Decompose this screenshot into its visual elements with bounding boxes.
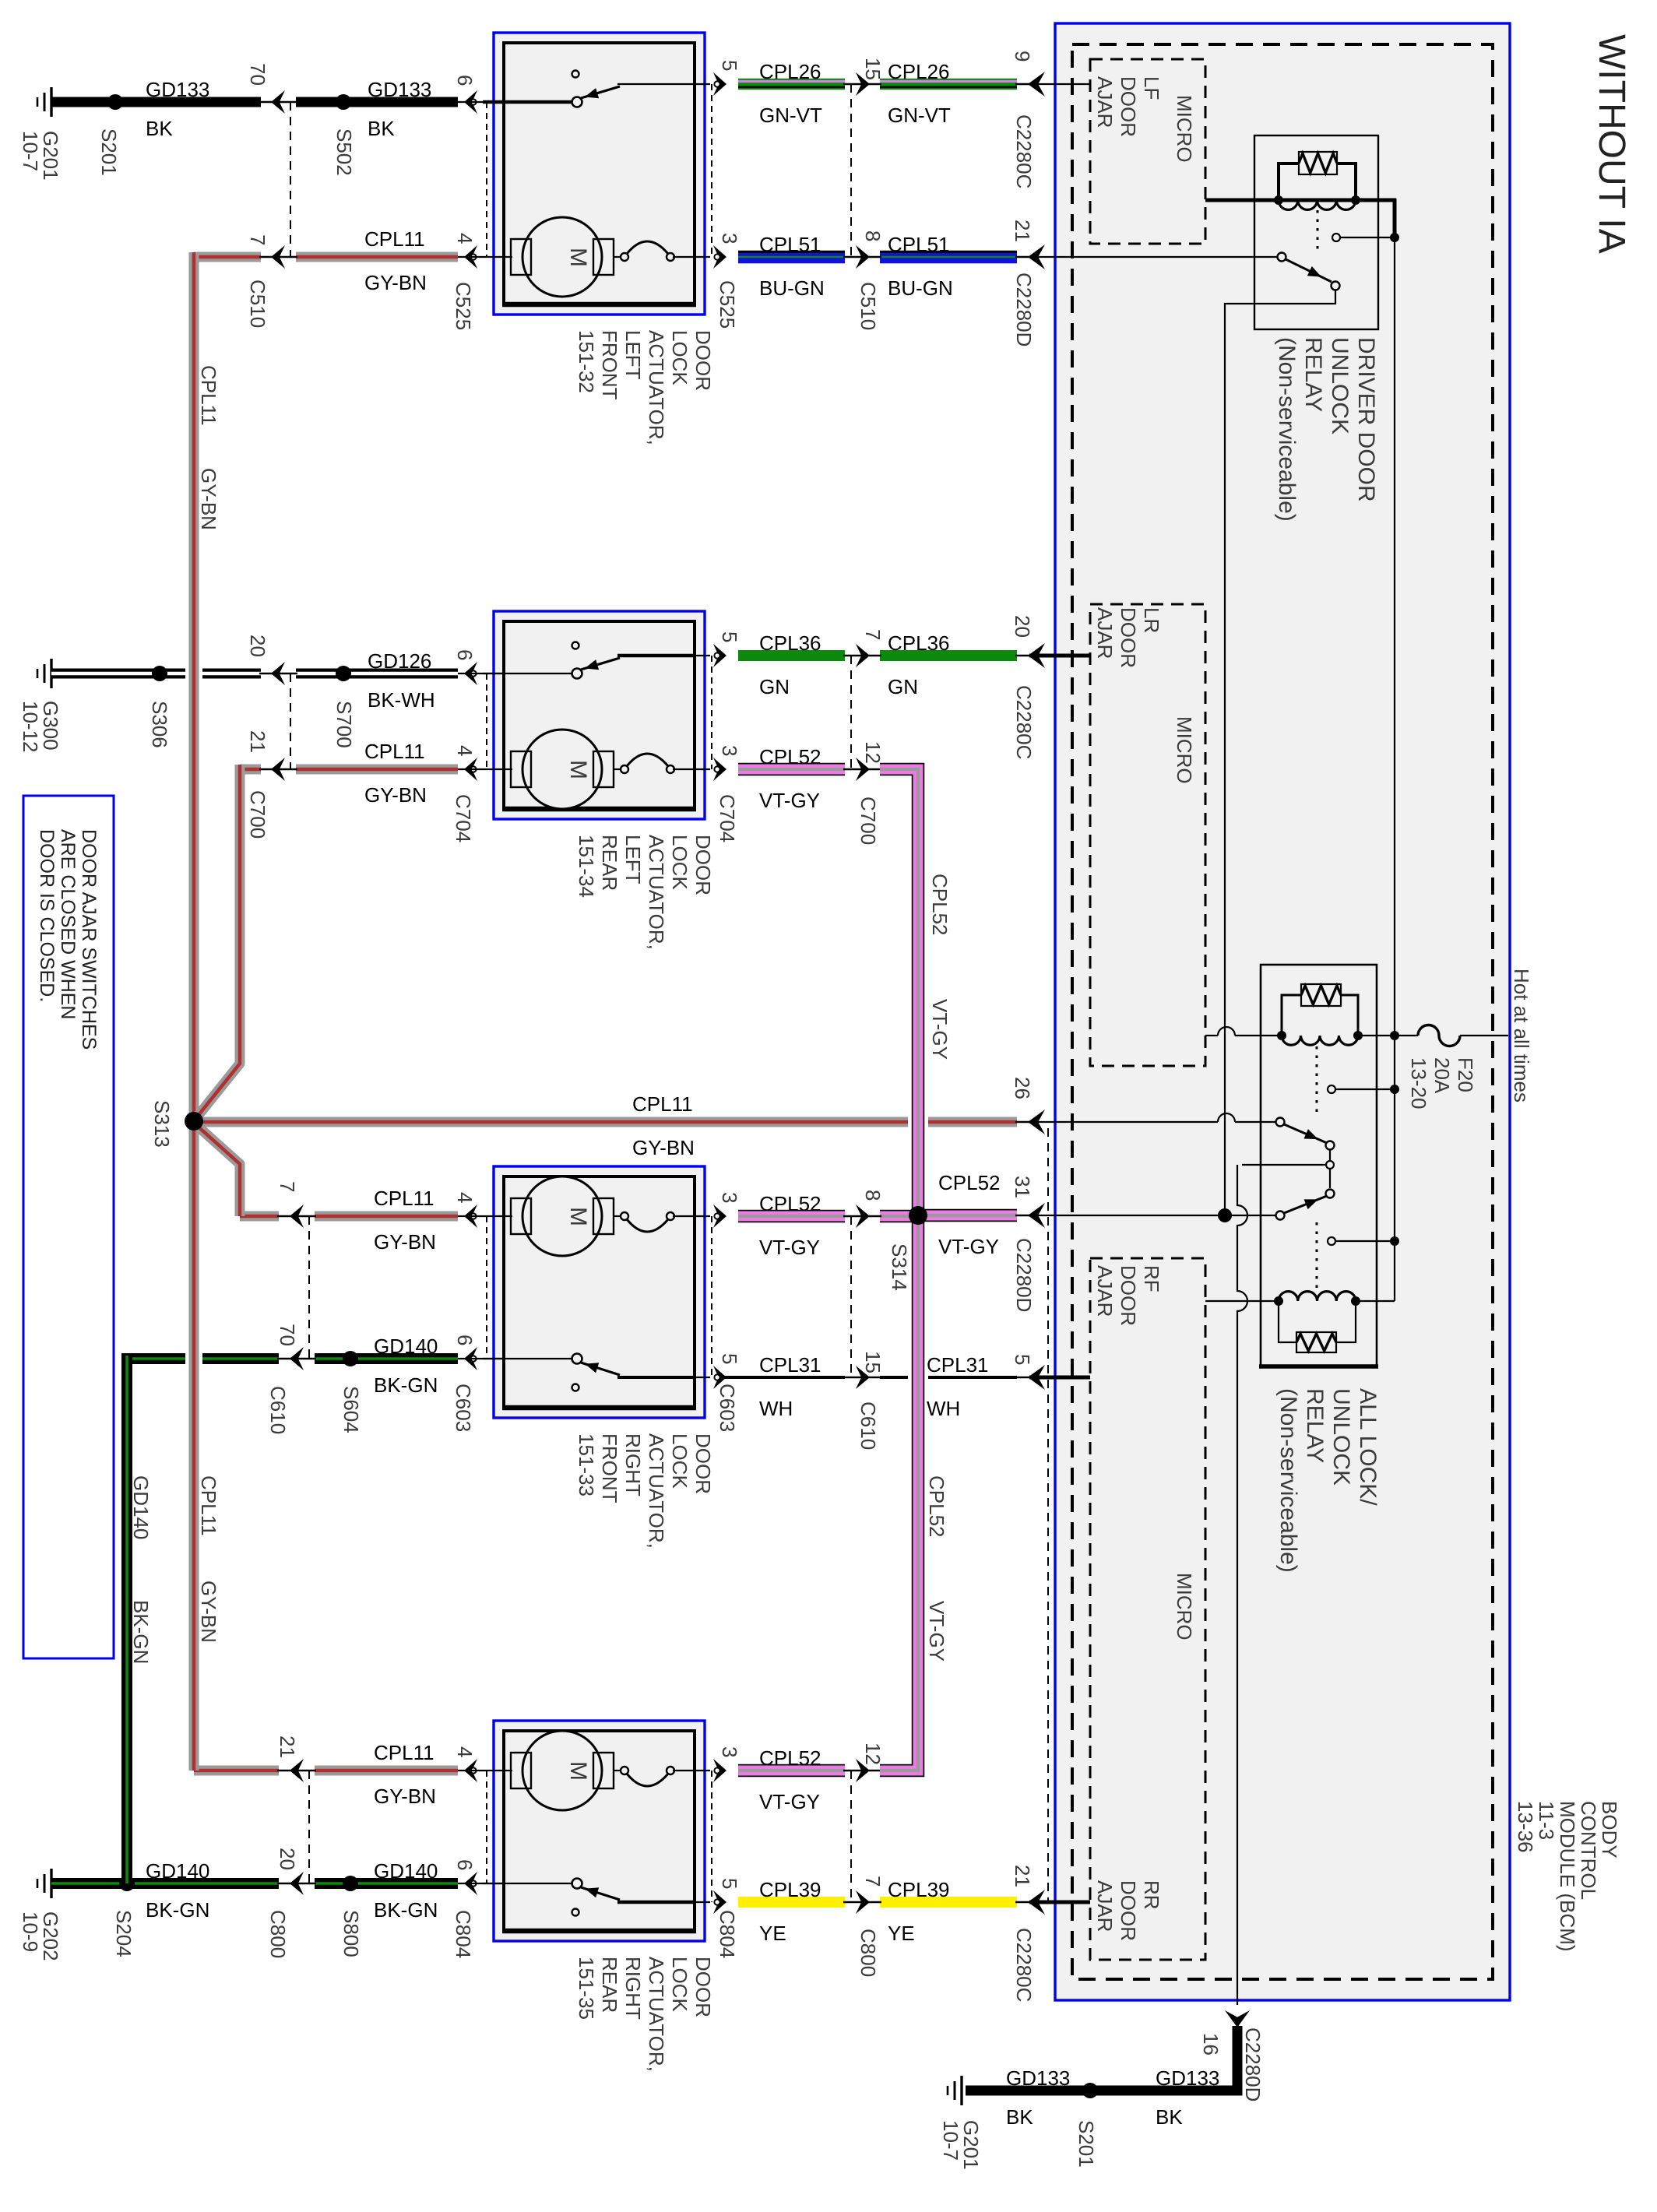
svg-text:21: 21	[1011, 1865, 1034, 1887]
svg-text:6: 6	[453, 75, 477, 86]
connector C704 dashed left	[486, 673, 487, 769]
ground G201 (bottom)	[960, 2076, 962, 2105]
svg-text:VT-GY: VT-GY	[928, 999, 952, 1060]
svg-text:S314: S314	[888, 1243, 911, 1291]
svg-text:C603: C603	[452, 1384, 475, 1432]
relay U2 actuation dotted links	[1316, 1046, 1318, 1115]
connector C510 pin70 arrow	[271, 90, 285, 114]
wire GD133 BK from pin16	[966, 2026, 1237, 2091]
svg-text:MICRO: MICRO	[1173, 1573, 1196, 1641]
svg-text:GD140: GD140	[146, 1859, 209, 1883]
svg-text:CPL52: CPL52	[928, 874, 952, 936]
BCM pin21 arrow C2280C	[1028, 1890, 1045, 1915]
C610 pin8 arrow	[856, 1204, 870, 1228]
ground G300	[50, 659, 52, 688]
connector C603 dashed right	[711, 1216, 712, 1377]
svg-text:C603: C603	[716, 1384, 739, 1432]
svg-text:GD126: GD126	[368, 649, 431, 673]
svg-text:C804: C804	[452, 1910, 475, 1958]
svg-text:GN: GN	[888, 675, 918, 698]
svg-text:CPL11: CPL11	[632, 1092, 693, 1116]
svg-text:S800: S800	[339, 1910, 363, 1957]
svg-text:3: 3	[718, 1746, 741, 1757]
C700 pin12 arrow	[856, 758, 870, 781]
wire to LR switch pin6	[464, 662, 477, 685]
splice S204	[119, 1876, 135, 1891]
wire GD133 BK left segment	[51, 97, 261, 107]
svg-text:GY-BN: GY-BN	[374, 1230, 436, 1254]
svg-text:CPL11: CPL11	[374, 1741, 434, 1764]
svg-text:S604: S604	[339, 1386, 363, 1433]
wire CPL39 YE segment 1	[738, 1897, 845, 1908]
wire CPL36 GN segment 2	[880, 650, 1017, 661]
wire GD126 BK-WH right segment	[296, 669, 458, 679]
svg-text:BK-GN: BK-GN	[146, 1898, 209, 1922]
wire pin31 row to relay U2 pole2 common	[1029, 1215, 1275, 1216]
LR pin4 arrow	[464, 758, 477, 781]
svg-text:BK: BK	[1156, 2105, 1183, 2129]
svg-text:M: M	[565, 760, 591, 779]
svg-text:C700: C700	[246, 790, 269, 839]
svg-text:C704: C704	[716, 794, 739, 842]
relay U2 center rest contact chain to ground	[1329, 1150, 1331, 1188]
svg-text:M: M	[565, 1761, 591, 1781]
svg-text:C700: C700	[857, 797, 880, 845]
relay U1 actuation dotted link	[1317, 210, 1319, 254]
white halo for VT-GY vertical	[908, 1112, 928, 1132]
svg-text:GD133: GD133	[1156, 2066, 1219, 2090]
wire CPL11 GY-BN vertical S313 bus	[189, 252, 199, 1771]
svg-text:CPL51: CPL51	[888, 233, 950, 256]
svg-text:CPL11: CPL11	[374, 1187, 434, 1210]
wire pin26 to relay U2 pole1 common	[1029, 1121, 1218, 1123]
fuse row / relay U2 upper coil feed	[1205, 1035, 1218, 1036]
RF pin4 arrow	[464, 1204, 477, 1228]
RR door ajar switch	[483, 1883, 573, 1884]
svg-text:BU-GN: BU-GN	[888, 276, 953, 300]
ground G202	[50, 1869, 52, 1898]
RR motor M	[505, 1770, 512, 1771]
wire CPL52 to S314	[880, 1210, 918, 1223]
LR door ajar switch	[483, 673, 573, 674]
relay U1 switch	[1278, 253, 1286, 262]
svg-text:CPL26: CPL26	[759, 60, 821, 83]
relay U1 output wire to S-bus	[1225, 290, 1335, 1215]
svg-text:5: 5	[718, 60, 741, 71]
svg-text:70: 70	[246, 63, 269, 86]
RF pin5 arrow	[713, 1366, 726, 1389]
LR pin5 arrow	[713, 644, 726, 667]
svg-text:MICRO: MICRO	[1173, 716, 1196, 784]
svg-text:WH: WH	[927, 1397, 960, 1420]
pin16 exit arrow C2280D	[1225, 2010, 1250, 2027]
wire GD133 BK right segment	[296, 97, 458, 107]
relay U2 pole1 NO contact to battery	[1328, 1085, 1335, 1093]
svg-text:WH: WH	[759, 1397, 793, 1420]
svg-text:CPL52: CPL52	[925, 1475, 948, 1538]
svg-text:4: 4	[453, 745, 477, 756]
svg-text:3: 3	[718, 745, 741, 756]
wire CPL39 YE segment 2	[880, 1897, 1017, 1908]
splice S604	[343, 1351, 358, 1366]
svg-text:C704: C704	[452, 794, 475, 842]
svg-text:S313: S313	[150, 1100, 174, 1148]
RR pin3 arrow	[713, 1759, 726, 1782]
splice S502	[336, 94, 351, 110]
svg-text:S201: S201	[97, 128, 121, 176]
svg-text:15: 15	[861, 1351, 885, 1373]
svg-text:GD140: GD140	[129, 1475, 153, 1539]
svg-text:12: 12	[861, 1743, 885, 1765]
svg-text:S201: S201	[1075, 2120, 1098, 2168]
svg-text:8: 8	[861, 1190, 885, 1201]
svg-text:6: 6	[453, 649, 477, 660]
svg-text:C2280D: C2280D	[1241, 2027, 1265, 2101]
svg-text:C610: C610	[857, 1401, 880, 1450]
svg-text:20: 20	[276, 1848, 299, 1870]
RF door ajar switch	[483, 1358, 573, 1359]
C800 pin12 arrow	[856, 1759, 870, 1782]
svg-text:GY-BN: GY-BN	[364, 271, 427, 294]
wire pin21 to relay U1 common	[1029, 256, 1278, 258]
connector C525 dashed right	[711, 84, 712, 257]
svg-text:GN-VT: GN-VT	[888, 104, 951, 127]
svg-text:21: 21	[246, 730, 269, 753]
connector C704 dashed right	[711, 656, 712, 769]
relay U2 upper coil	[1282, 1036, 1358, 1045]
wire to LF switch pin6	[464, 90, 477, 114]
svg-text:C525: C525	[716, 280, 739, 329]
C610 pin15 arrow	[856, 1366, 870, 1389]
wire GD126 BK-WH left segment	[51, 669, 261, 679]
white halo for GY-BN vertical	[185, 663, 202, 684]
LF pin4 arrow	[464, 245, 477, 269]
door lock actuator LR box 151-34	[494, 611, 705, 819]
BCM internal dashed boundary	[1072, 44, 1493, 1979]
svg-text:CPL31: CPL31	[759, 1353, 821, 1377]
svg-text:C610: C610	[266, 1386, 290, 1434]
svg-text:CPL36: CPL36	[888, 631, 950, 655]
connector C700 dashed (right)	[850, 656, 852, 769]
svg-text:GD140: GD140	[374, 1335, 438, 1358]
relay U1 box DRIVER DOOR UNLOCK RELAY	[1254, 135, 1378, 329]
svg-text:CPL39: CPL39	[759, 1878, 821, 1901]
svg-text:CPL31: CPL31	[927, 1353, 989, 1377]
svg-text:GY-BN: GY-BN	[197, 468, 220, 530]
wire CPL11 GY-BN to RF motor	[240, 1212, 279, 1222]
svg-text:S306: S306	[148, 701, 171, 748]
LF door ajar switch	[483, 100, 573, 104]
RR pin4 arrow	[464, 1759, 477, 1782]
wire CPL11 branch to RF motor (diagonal)	[195, 1124, 240, 1216]
svg-text:BK: BK	[146, 117, 173, 140]
wire CPL26 GN-VT segment 2	[880, 79, 1017, 90]
svg-text:CPL39: CPL39	[888, 1878, 950, 1901]
svg-text:BK-WH: BK-WH	[368, 688, 435, 712]
svg-text:9: 9	[1011, 51, 1034, 62]
svg-text:5: 5	[1011, 1354, 1034, 1365]
wire pin5 RF to micro	[1029, 1376, 1090, 1380]
door lock actuator LF box 151-32	[494, 33, 705, 315]
splice S201	[107, 94, 123, 110]
BCM pin20 arrow C2280C	[1028, 643, 1045, 668]
svg-text:S204: S204	[112, 1910, 135, 1957]
wire pin20 LR to micro	[1029, 654, 1090, 658]
svg-text:6: 6	[453, 1335, 477, 1345]
wire CPL51 BU-GN segment 2	[880, 251, 1017, 264]
svg-text:C2280D: C2280D	[1012, 1238, 1036, 1312]
connector C510 dashed line (left)	[290, 102, 291, 257]
MICRO box RF/RR	[1090, 1258, 1205, 1960]
svg-text:3: 3	[718, 1192, 741, 1203]
RF pin3 arrow	[713, 1204, 726, 1228]
svg-text:C800: C800	[857, 1929, 880, 1977]
svg-text:21: 21	[276, 1735, 299, 1758]
svg-text:GY-BN: GY-BN	[632, 1136, 695, 1159]
connector C804 dashed left	[486, 1771, 487, 1883]
svg-text:GN: GN	[759, 675, 790, 698]
svg-text:BK-GN: BK-GN	[129, 1600, 153, 1664]
svg-text:YE: YE	[759, 1922, 786, 1945]
svg-text:CPL52: CPL52	[938, 1171, 1001, 1194]
svg-text:4: 4	[453, 1192, 477, 1203]
svg-text:12: 12	[861, 741, 885, 764]
svg-text:CPL52: CPL52	[759, 1192, 821, 1215]
connector C800 dashed (left)	[308, 1771, 310, 1883]
wire CPL52 VT-GY vertical bus with corners	[880, 769, 918, 1771]
svg-text:6: 6	[453, 1859, 477, 1870]
splice S314	[909, 1206, 927, 1225]
wire CPL26 GN-VT segment 1	[738, 79, 845, 90]
svg-text:4: 4	[453, 1746, 477, 1757]
svg-text:CPL51: CPL51	[759, 233, 821, 256]
svg-text:70: 70	[276, 1324, 299, 1346]
wire CPL11 GY-BN to RR motor	[194, 1766, 279, 1776]
connector C610 dashed (right)	[850, 1216, 852, 1377]
connector C525 dashed left	[486, 102, 487, 257]
svg-text:21: 21	[1011, 220, 1034, 242]
svg-text:BK-GN: BK-GN	[374, 1898, 438, 1922]
svg-text:8: 8	[861, 230, 885, 241]
svg-text:BK: BK	[1006, 2105, 1033, 2129]
svg-text:4: 4	[453, 233, 477, 244]
wire pin9 to LF micro	[1029, 83, 1090, 85]
svg-text:CPL36: CPL36	[759, 631, 821, 655]
LR pin3 arrow	[713, 758, 726, 781]
wire pin21 RR to micro	[1029, 1901, 1090, 1904]
wire CPL31 WH segment 1	[723, 1376, 845, 1379]
door lock actuator RF box 151-33	[494, 1166, 705, 1418]
BCM module box BODY CONTROL MODULE (BCM)	[1055, 23, 1510, 2000]
C700 pin7 arrow	[856, 644, 870, 667]
svg-text:C2280C: C2280C	[1012, 1928, 1036, 2002]
svg-text:5: 5	[718, 631, 741, 642]
svg-text:CPL26: CPL26	[888, 60, 950, 83]
svg-text:GD133: GD133	[146, 78, 209, 101]
ground bus vertical to pin16	[1237, 1165, 1247, 2005]
LF motor M	[505, 256, 512, 258]
svg-text:20: 20	[1011, 615, 1034, 638]
relay U2 pole2 switch	[1276, 1212, 1285, 1220]
svg-text:VT-GY: VT-GY	[759, 789, 820, 812]
svg-text:BK: BK	[368, 117, 395, 140]
svg-text:GD133: GD133	[368, 78, 431, 101]
C800 pin7 arrow	[856, 1890, 870, 1914]
splice S700	[336, 666, 351, 681]
svg-text:WITHOUT IA: WITHOUT IA	[1591, 34, 1632, 254]
LR motor M	[505, 768, 512, 770]
svg-text:VT-GY: VT-GY	[759, 1790, 820, 1813]
relay U2 lower coil feed from RF/RR micro	[1205, 1300, 1279, 1302]
svg-text:GN-VT: GN-VT	[759, 104, 822, 127]
splice S313	[185, 1112, 203, 1131]
relay U1 coil feed wire	[1205, 199, 1396, 202]
svg-text:GD133: GD133	[1006, 2066, 1070, 2090]
svg-text:16: 16	[1199, 2033, 1223, 2056]
wire CPL36 GN segment 1	[738, 650, 845, 661]
wire GD140 BK-GN bottom row	[51, 1878, 279, 1889]
svg-text:5: 5	[718, 1878, 741, 1889]
wire CPL11 branch to LR motor (diagonal)	[195, 765, 240, 1119]
svg-text:Hot at all times: Hot at all times	[1510, 969, 1533, 1102]
relay U2 box ALL LOCK/UNLOCK RELAY	[1261, 965, 1377, 1366]
svg-text:GY-BN: GY-BN	[374, 1785, 436, 1808]
wire CPL52 VT-GY RR segment	[738, 1764, 845, 1778]
C510 pin15 arrow	[856, 72, 870, 96]
connector C510 dashed (right)	[850, 84, 852, 257]
relay U1 coil	[1279, 200, 1356, 209]
door lock actuator RR box 151-35	[494, 1721, 705, 1941]
svg-text:C510: C510	[246, 280, 269, 328]
LF pin3 arrow	[713, 245, 726, 269]
splice S800	[343, 1876, 358, 1891]
svg-text:3: 3	[718, 233, 741, 244]
wire CPL11 GY-BN row to LF motor	[194, 252, 261, 262]
fuse F20	[1395, 1035, 1418, 1036]
BCM pin9 arrow C2280C	[1028, 72, 1045, 97]
svg-text:CPL11: CPL11	[364, 227, 425, 251]
BCM pin5 arrow	[1028, 1365, 1045, 1390]
battery bus vertical	[1393, 199, 1397, 239]
svg-text:MICRO: MICRO	[1173, 95, 1196, 163]
svg-text:C800: C800	[266, 1910, 290, 1958]
RF motor M	[505, 1215, 512, 1217]
wire CPL11 GY-BN long row from S313 to BCM pin26	[194, 1117, 1017, 1127]
svg-text:C510: C510	[857, 282, 880, 330]
relay U1 NO contact to battery bus	[1332, 234, 1340, 241]
C800 pin20 arrow	[290, 1872, 304, 1895]
wire GD140 BK-GN from corner to RF switch	[127, 1353, 279, 1364]
svg-text:GY-BN: GY-BN	[364, 783, 427, 807]
connector C800 dashed (right)	[850, 1771, 852, 1902]
svg-text:S502: S502	[332, 128, 356, 176]
svg-text:7: 7	[246, 234, 269, 245]
svg-text:BK-GN: BK-GN	[374, 1373, 438, 1397]
svg-text:C804: C804	[716, 1910, 739, 1958]
MICRO box LF	[1090, 59, 1205, 244]
note box DOOR AJAR SWITCHES	[23, 796, 114, 1658]
BCM pin21 arrow C2280D	[1028, 244, 1045, 269]
RR pin6 arrow	[464, 1872, 477, 1895]
MICRO box LR	[1090, 604, 1205, 1066]
wire CPL51 BU-GN segment 1	[738, 251, 845, 264]
svg-text:CPL52: CPL52	[759, 1746, 821, 1770]
splice S201 (bottom)	[1082, 2083, 1098, 2098]
svg-text:VT-GY: VT-GY	[938, 1235, 999, 1258]
splice S306	[152, 666, 167, 681]
svg-text:CPL11: CPL11	[197, 365, 220, 426]
connector C700 dashed (left)	[290, 673, 291, 769]
svg-text:C2280C: C2280C	[1012, 114, 1036, 188]
connector C2280D group dashed line	[1047, 1128, 1049, 1902]
svg-text:20: 20	[246, 635, 269, 657]
svg-text:5: 5	[718, 1353, 741, 1364]
C700 pin20 arrow	[271, 662, 285, 685]
svg-text:CPL11: CPL11	[197, 1475, 220, 1536]
wire CPL11 GY-BN to LR motor	[240, 765, 261, 775]
svg-text:C525: C525	[452, 282, 475, 330]
LF pin5 arrow	[713, 72, 726, 96]
relay U2 pole2 NO contact to battery	[1328, 1237, 1335, 1245]
thin wire bridges at connectors	[259, 101, 297, 103]
connector C603 dashed left	[486, 1216, 487, 1359]
svg-text:CPL52: CPL52	[759, 745, 821, 768]
svg-text:GD140: GD140	[374, 1859, 438, 1883]
relay U2 upper resistor	[1282, 995, 1301, 1033]
wire CPL31 WH segment 2	[880, 1376, 1017, 1379]
svg-text:7: 7	[276, 1181, 299, 1192]
svg-text:VT-GY: VT-GY	[759, 1236, 820, 1259]
svg-text:GY-BN: GY-BN	[197, 1581, 220, 1643]
BCM pin31 arrow	[1028, 1203, 1045, 1228]
svg-text:YE: YE	[888, 1922, 915, 1945]
svg-text:BU-GN: BU-GN	[759, 276, 825, 300]
relay U2 lower coil	[1279, 1292, 1356, 1301]
svg-text:S700: S700	[332, 701, 356, 748]
svg-text:7: 7	[861, 1876, 885, 1887]
relay U2 pole1 switch	[1276, 1118, 1285, 1127]
RR pin5 arrow	[713, 1890, 726, 1914]
svg-text:C2280C: C2280C	[1012, 685, 1036, 759]
wire GD140 BK-GN vertical	[121, 1353, 132, 1883]
wire CPL52 VT-GY from S314 to BCM pin31	[918, 1209, 1017, 1222]
svg-text:M: M	[565, 1207, 591, 1226]
svg-text:M: M	[565, 248, 591, 267]
svg-text:26: 26	[1011, 1077, 1034, 1099]
svg-text:CPL11: CPL11	[364, 740, 425, 763]
svg-text:VT-GY: VT-GY	[925, 1601, 948, 1662]
ground G201	[50, 87, 52, 117]
svg-text:15: 15	[861, 58, 885, 80]
C510 pin8 arrow	[856, 245, 870, 269]
svg-text:G30010-12: G30010-12	[19, 701, 62, 753]
svg-text:7: 7	[861, 629, 885, 640]
BCM pin26 arrow	[1028, 1110, 1045, 1134]
wire CPL52 VT-GY segment 1	[738, 763, 845, 776]
relay U2 lower resistor	[1279, 1303, 1296, 1342]
svg-text:C2280D: C2280D	[1012, 273, 1036, 346]
connector C610 dashed (left)	[308, 1216, 310, 1359]
wire CPL52 VT-GY RF segment	[738, 1210, 845, 1223]
RF pin6 arrow	[464, 1347, 477, 1370]
connector C804 dashed right	[711, 1771, 712, 1902]
relay U1 resistor	[1279, 164, 1299, 198]
svg-text:31: 31	[1011, 1176, 1034, 1198]
